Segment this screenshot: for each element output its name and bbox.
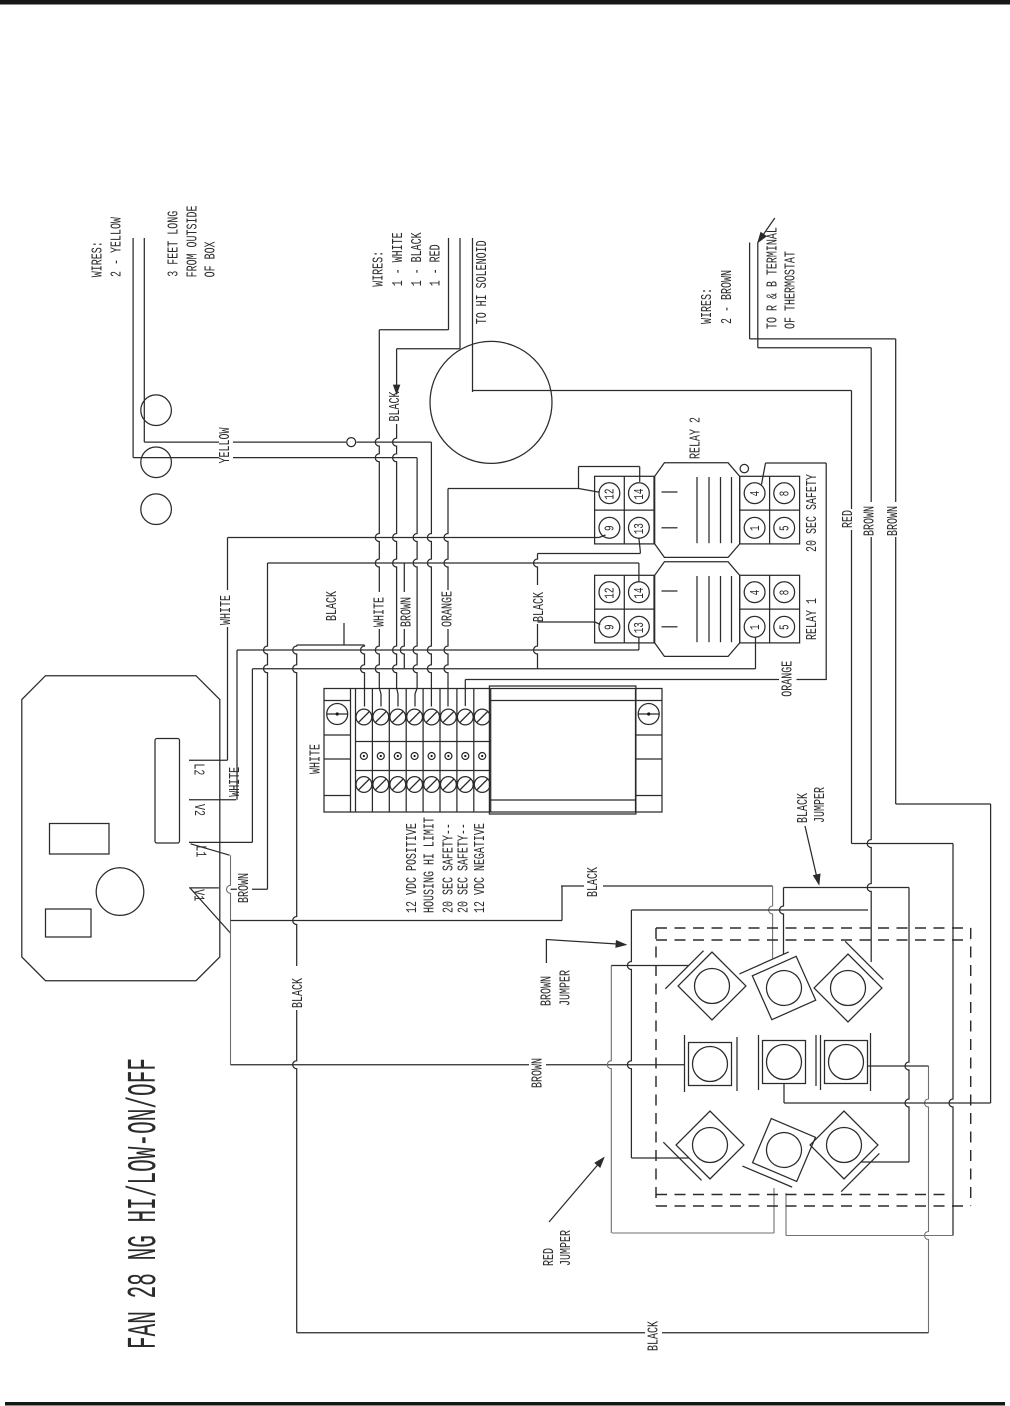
- svg-text:BROWN: BROWN: [539, 976, 555, 1006]
- svg-text:WIRES:: WIRES:: [90, 241, 106, 277]
- svg-text:RELAY 2: RELAY 2: [688, 417, 704, 459]
- svg-text:4: 4: [748, 491, 763, 497]
- svg-text:WHITE: WHITE: [372, 597, 388, 627]
- svg-text:TO HI SOLENOID: TO HI SOLENOID: [474, 240, 490, 324]
- svg-text:13: 13: [633, 523, 648, 534]
- svg-text:WHITE: WHITE: [219, 595, 235, 625]
- svg-text:BLACK: BLACK: [586, 867, 602, 897]
- svg-text:FROM OUTSIDE: FROM OUTSIDE: [185, 205, 201, 277]
- svg-text:5: 5: [778, 624, 793, 630]
- svg-text:20 SEC SAFETY--: 20 SEC SAFETY--: [441, 823, 457, 913]
- svg-text:14: 14: [633, 488, 648, 499]
- svg-text:BLACK: BLACK: [532, 592, 548, 622]
- svg-text:BLACK: BLACK: [291, 978, 307, 1008]
- svg-text:1: 1: [748, 624, 763, 630]
- svg-text:9: 9: [603, 525, 618, 531]
- svg-text:BROWN: BROWN: [236, 873, 252, 903]
- svg-text:20 SEC SAFETY--: 20 SEC SAFETY--: [456, 823, 472, 913]
- svg-text:OF BOX: OF BOX: [203, 241, 219, 277]
- svg-text:WIRES:: WIRES:: [700, 288, 716, 324]
- svg-text:2 - BROWN: 2 - BROWN: [720, 270, 736, 324]
- svg-text:L1: L1: [192, 845, 208, 857]
- svg-text:1: 1: [748, 525, 763, 531]
- svg-text:BLACK: BLACK: [646, 1321, 662, 1351]
- svg-text:RELAY 1: RELAY 1: [805, 598, 821, 640]
- svg-text:20 SEC SAFETY: 20 SEC SAFETY: [805, 474, 821, 552]
- svg-text:WHITE: WHITE: [308, 744, 324, 774]
- svg-text:RED: RED: [542, 1248, 558, 1266]
- svg-text:WHITE: WHITE: [228, 767, 244, 797]
- svg-text:4: 4: [748, 590, 763, 596]
- svg-text:12: 12: [603, 587, 618, 598]
- svg-text:BROWN: BROWN: [886, 506, 902, 536]
- svg-text:YELLOW: YELLOW: [218, 427, 234, 463]
- svg-text:ORANGE: ORANGE: [780, 661, 796, 697]
- svg-text:1 - RED: 1 - RED: [428, 244, 444, 286]
- svg-text:BROWN: BROWN: [399, 597, 415, 627]
- svg-text:OF THERMOSTAT: OF THERMOSTAT: [783, 251, 799, 329]
- svg-text:1 - WHITE: 1 - WHITE: [390, 232, 406, 286]
- svg-text:BROWN: BROWN: [530, 1058, 546, 1088]
- svg-text:ORANGE: ORANGE: [440, 591, 456, 627]
- svg-text:3 FEET LONG: 3 FEET LONG: [166, 211, 182, 277]
- svg-text:JUMPER: JUMPER: [813, 787, 829, 823]
- svg-text:BROWN: BROWN: [862, 506, 878, 536]
- svg-text:2 - YELLOW: 2 - YELLOW: [109, 217, 125, 277]
- svg-text:9: 9: [603, 624, 618, 630]
- svg-text:V2: V2: [190, 804, 206, 816]
- svg-text:TO R & B TERMINAL: TO R & B TERMINAL: [765, 227, 781, 329]
- svg-text:BLACK: BLACK: [325, 591, 341, 621]
- svg-text:12 VDC NEGATIVE: 12 VDC NEGATIVE: [473, 823, 489, 913]
- svg-text:BLACK: BLACK: [796, 793, 812, 823]
- svg-text:WIRES:: WIRES:: [371, 251, 387, 287]
- svg-text:8: 8: [778, 590, 793, 596]
- svg-text:JUMPER: JUMPER: [559, 1230, 575, 1266]
- svg-text:1 - BLACK: 1 - BLACK: [409, 232, 425, 286]
- svg-text:5: 5: [778, 525, 793, 531]
- svg-text:FAN 28 NG HI/LOW-ON/OFF: FAN 28 NG HI/LOW-ON/OFF: [121, 1058, 168, 1349]
- svg-text:L2: L2: [190, 763, 206, 775]
- svg-text:8: 8: [778, 491, 793, 497]
- svg-text:RED: RED: [841, 510, 857, 528]
- svg-text:12: 12: [603, 488, 618, 499]
- svg-text:12 VDC POSITIVE: 12 VDC POSITIVE: [405, 823, 421, 913]
- svg-text:BLACK: BLACK: [388, 391, 404, 421]
- svg-text:V1: V1: [190, 889, 206, 901]
- svg-text:HOUSING HI LIMIT: HOUSING HI LIMIT: [422, 817, 438, 913]
- svg-text:14: 14: [633, 587, 648, 598]
- svg-text:13: 13: [633, 622, 648, 633]
- svg-text:JUMPER: JUMPER: [558, 970, 574, 1006]
